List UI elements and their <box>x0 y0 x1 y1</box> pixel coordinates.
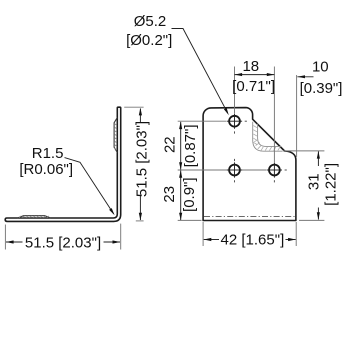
svg-text:[0.87"]: [0.87"] <box>182 124 199 167</box>
svg-text:31: 31 <box>305 173 322 190</box>
svg-text:[R0.06"]: [R0.06"] <box>19 161 73 178</box>
svg-text:18: 18 <box>242 58 259 75</box>
svg-text:10: 10 <box>312 58 329 75</box>
svg-text:[0.9"]: [0.9"] <box>181 177 198 212</box>
svg-text:[Ø0.2"]: [Ø0.2"] <box>126 32 172 49</box>
svg-text:42 [1.65"]: 42 [1.65"] <box>221 232 285 249</box>
svg-text:R1.5: R1.5 <box>32 145 64 162</box>
svg-text:23: 23 <box>161 186 178 203</box>
svg-text:51.5 [2.03"]: 51.5 [2.03"] <box>25 234 101 251</box>
svg-text:51.5 [2.03"]: 51.5 [2.03"] <box>134 121 151 197</box>
svg-text:[0.71"]: [0.71"] <box>232 78 275 95</box>
svg-text:[1.22"]: [1.22"] <box>322 163 339 206</box>
svg-text:22: 22 <box>162 136 179 153</box>
svg-text:[0.39"]: [0.39"] <box>300 80 343 97</box>
svg-text:Ø5.2: Ø5.2 <box>134 13 167 30</box>
